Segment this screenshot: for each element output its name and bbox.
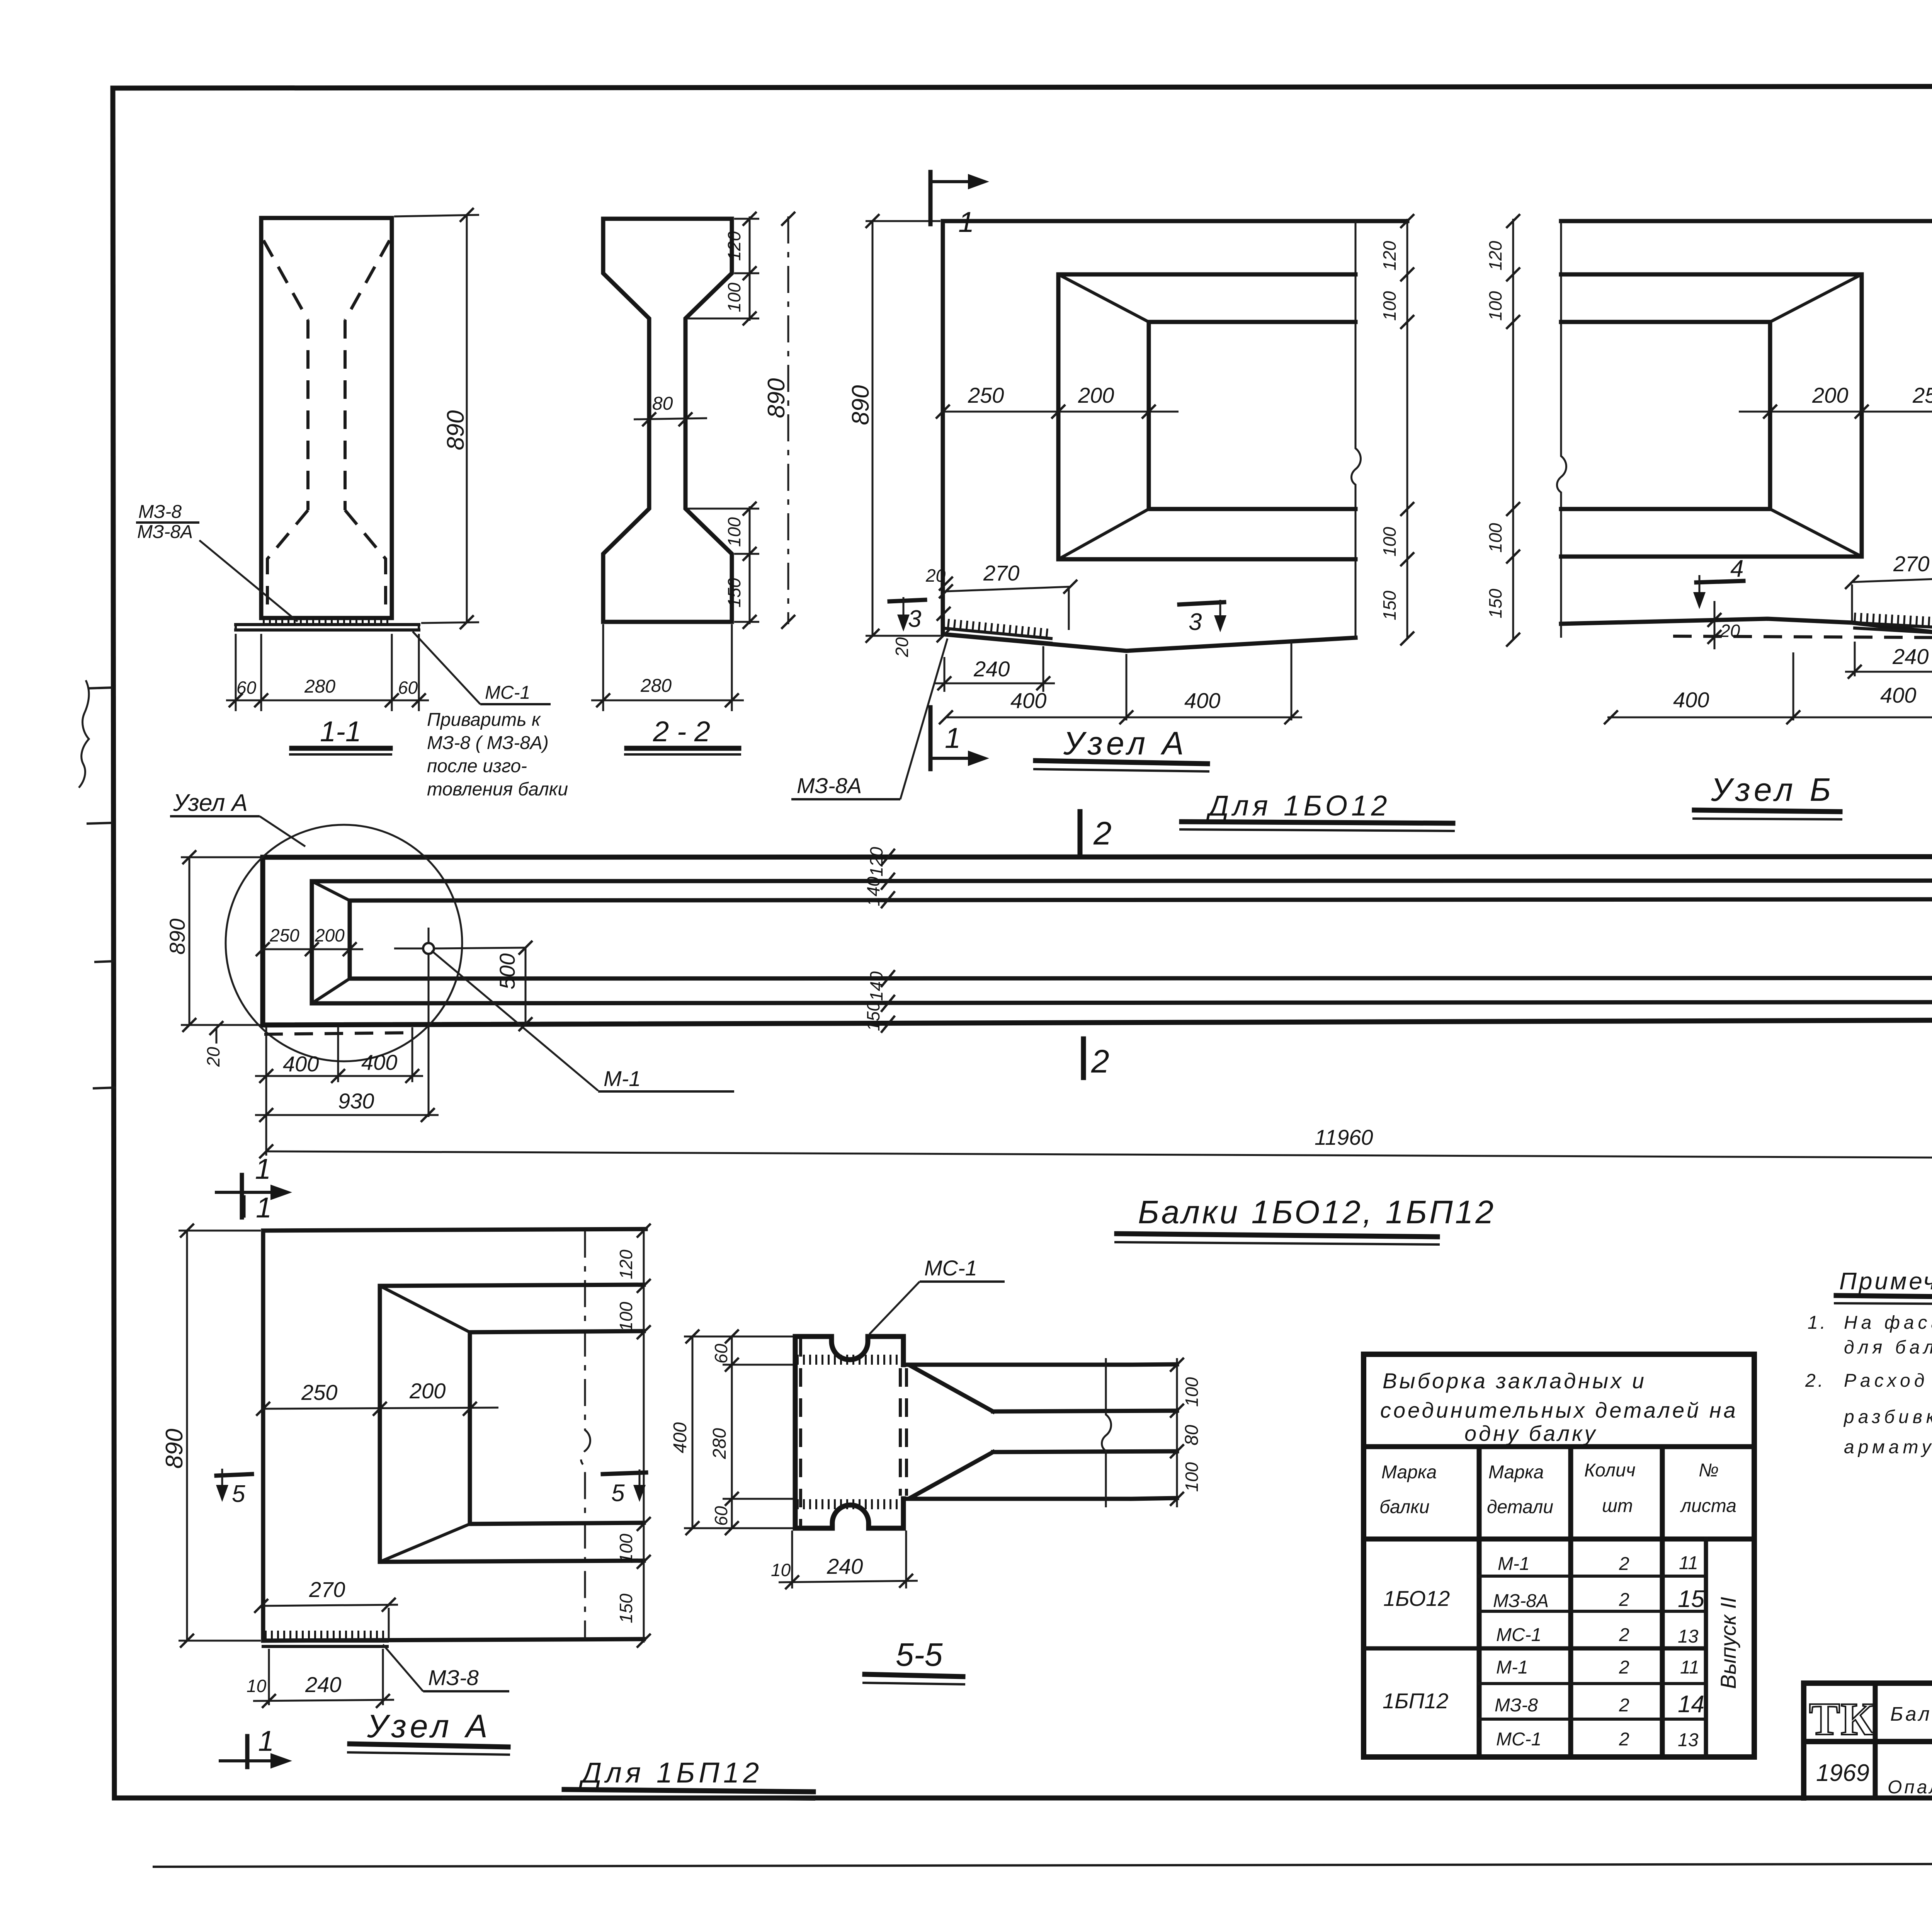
svg-text:80: 80 bbox=[652, 393, 673, 414]
title block grid bbox=[1804, 1683, 1932, 1798]
svg-text:МС-1: МС-1 bbox=[924, 1256, 977, 1280]
svg-text:100: 100 bbox=[1485, 523, 1505, 553]
uzel B dims 120 100 100 150 left bbox=[1485, 214, 1520, 647]
svg-text:соединительных деталей на: соединительных деталей на bbox=[1380, 1398, 1738, 1422]
beam outline bbox=[263, 856, 1932, 1025]
svg-text:3: 3 bbox=[908, 606, 921, 632]
svg-text:Узел А: Узел А bbox=[173, 790, 248, 816]
label Для 1БП12 bbox=[562, 1757, 815, 1800]
labels МЗ-8 МЗ-8А with leader bbox=[136, 502, 298, 621]
svg-text:Примечания.: Примечания. bbox=[1839, 1268, 1932, 1295]
uzel A beam outline bbox=[943, 221, 1407, 651]
svg-text:3: 3 bbox=[1189, 609, 1202, 635]
М-1 item left with leader bbox=[394, 928, 734, 1117]
svg-text:890: 890 bbox=[442, 410, 469, 450]
title 1-1 bbox=[289, 715, 392, 754]
bottom uzel A dims 120 100 100 150 right bbox=[616, 1224, 651, 1648]
section 2-2 I-beam outline bbox=[603, 219, 732, 622]
svg-text:МС-1: МС-1 bbox=[1496, 1729, 1541, 1750]
svg-text:240: 240 bbox=[973, 657, 1010, 681]
svg-text:5: 5 bbox=[232, 1481, 245, 1507]
svg-text:МЗ-8А: МЗ-8А bbox=[1493, 1591, 1549, 1611]
uzel A dim 890 left bbox=[847, 214, 940, 643]
svg-text:МЗ-8: МЗ-8 bbox=[138, 502, 182, 522]
svg-text:250: 250 bbox=[301, 1380, 337, 1405]
svg-text:270: 270 bbox=[1893, 552, 1929, 576]
svg-text:13: 13 bbox=[1678, 1730, 1699, 1750]
svg-text:100: 100 bbox=[724, 517, 744, 547]
svg-text:120: 120 bbox=[866, 847, 886, 877]
svg-text:270: 270 bbox=[309, 1577, 345, 1602]
svg-text:1БП12: 1БП12 bbox=[1383, 1689, 1448, 1713]
svg-text:5-5: 5-5 bbox=[896, 1636, 943, 1673]
title row 1 bbox=[1890, 1699, 1932, 1725]
5-5 dims 60 280 60 400 left bbox=[670, 1330, 793, 1535]
bottom uzel A МЗ-8 plate bbox=[263, 1636, 387, 1646]
svg-text:60: 60 bbox=[398, 678, 418, 698]
svg-text:1-1: 1-1 bbox=[320, 715, 361, 747]
dashed 20 drop line left bbox=[203, 1021, 412, 1067]
svg-text:240: 240 bbox=[1892, 644, 1929, 669]
svg-text:280: 280 bbox=[640, 676, 672, 696]
svg-text:15: 15 bbox=[1678, 1586, 1704, 1612]
svg-text:Балки с параллельными поясами: Балки с параллельными поясами пролетом 1… bbox=[1890, 1703, 1932, 1725]
title row 2 bbox=[1816, 1746, 1932, 1798]
svg-text:120: 120 bbox=[1485, 241, 1505, 271]
svg-text:10: 10 bbox=[247, 1676, 267, 1696]
svg-text:Узел А: Узел А bbox=[367, 1708, 492, 1744]
TK logo bbox=[1809, 1693, 1875, 1745]
svg-text:одну балку: одну балку bbox=[1464, 1421, 1598, 1445]
2-2 bottom dim 280 bbox=[591, 624, 744, 711]
svg-text:60: 60 bbox=[711, 1343, 731, 1364]
svg-text:400: 400 bbox=[361, 1050, 397, 1074]
svg-text:11: 11 bbox=[1679, 1553, 1698, 1573]
svg-text:М-1: М-1 bbox=[1498, 1554, 1530, 1574]
svg-text:ТК: ТК bbox=[1809, 1693, 1875, 1745]
svg-text:2.: 2. bbox=[1805, 1371, 1825, 1391]
svg-text:после изго-: после изго- bbox=[427, 756, 527, 776]
svg-text:арматурные чертежи - на лис: арматурные чертежи - на листах 10, 11 bbox=[1844, 1437, 1932, 1457]
svg-text:Узел Б: Узел Б bbox=[1711, 771, 1835, 808]
uzel B dim 240 and 25 bbox=[1845, 638, 1932, 679]
5-5 МС-1 callout bbox=[869, 1256, 1005, 1334]
5-5 dims 10 240 bottom bbox=[771, 1531, 918, 1589]
svg-text:20: 20 bbox=[203, 1047, 223, 1067]
section mark 2 top bbox=[1080, 812, 1112, 852]
plate МС-1 under section 1-1 bbox=[236, 621, 419, 632]
svg-text:№: № bbox=[1699, 1460, 1719, 1481]
svg-text:МЗ-8: МЗ-8 bbox=[1495, 1695, 1538, 1716]
title 2-2 bbox=[624, 715, 741, 754]
svg-text:шт: шт bbox=[1602, 1496, 1633, 1516]
uzel A title bbox=[1033, 725, 1209, 771]
svg-text:400: 400 bbox=[1184, 688, 1220, 713]
svg-text:60: 60 bbox=[236, 678, 257, 698]
uzel B dim 20 at kink bbox=[1708, 601, 1740, 649]
svg-text:200: 200 bbox=[1812, 383, 1848, 407]
svg-text:80: 80 bbox=[1182, 1425, 1202, 1445]
bottom uzel A МЗ-8 label with leader bbox=[383, 1645, 509, 1691]
title 5-5 bbox=[862, 1636, 965, 1684]
beam title bbox=[1114, 1194, 1496, 1245]
svg-text:1: 1 bbox=[945, 722, 961, 754]
bottom uzel A recess box bbox=[380, 1285, 644, 1562]
svg-text:150: 150 bbox=[724, 578, 744, 608]
svg-text:100: 100 bbox=[724, 283, 744, 312]
2-2 web dim 80 bbox=[634, 393, 707, 426]
label МС-1 with leader and note text bbox=[413, 632, 568, 800]
dim 500 left bbox=[495, 941, 532, 1031]
footer line bbox=[153, 1863, 1932, 1867]
svg-text:200: 200 bbox=[1078, 383, 1114, 407]
svg-text:2: 2 bbox=[1619, 1590, 1629, 1610]
note 1 bbox=[1808, 1313, 1932, 1358]
bottom uzel A dim 250 200 bbox=[256, 1379, 498, 1416]
svg-text:11: 11 bbox=[1680, 1657, 1699, 1678]
svg-text:Узел А: Узел А bbox=[1063, 725, 1188, 761]
beam dim 890 left bbox=[165, 850, 260, 1032]
svg-text:280: 280 bbox=[304, 676, 335, 697]
uzel B title bbox=[1692, 771, 1842, 819]
label Для 1БО12 bbox=[1179, 790, 1455, 831]
svg-text:120: 120 bbox=[616, 1250, 636, 1279]
svg-text:140: 140 bbox=[863, 877, 883, 906]
svg-text:Для 1БП12: Для 1БП12 bbox=[579, 1757, 763, 1789]
svg-text:2: 2 bbox=[1619, 1729, 1629, 1750]
dim 11960 bbox=[259, 1125, 1932, 1166]
callout circle uzel A bbox=[170, 790, 462, 1061]
svg-text:МС-1: МС-1 bbox=[1496, 1625, 1541, 1645]
dimension 890 right of 1-1 bbox=[394, 208, 479, 629]
svg-text:Марка: Марка bbox=[1381, 1462, 1437, 1483]
svg-text:100: 100 bbox=[616, 1534, 636, 1563]
uzel B section marks 4 bbox=[1693, 555, 1743, 609]
svg-text:20: 20 bbox=[925, 565, 946, 586]
svg-text:МС-1: МС-1 bbox=[485, 683, 530, 703]
svg-text:Марка: Марка bbox=[1488, 1462, 1544, 1483]
svg-text:МЗ-8 ( МЗ-8А): МЗ-8 ( МЗ-8А) bbox=[427, 733, 549, 753]
svg-text:2: 2 bbox=[1619, 1625, 1629, 1645]
bottom uzel A cut line with break bbox=[581, 1231, 590, 1639]
uzel A section mark 1 top bbox=[930, 172, 989, 238]
svg-text:150: 150 bbox=[1379, 591, 1400, 620]
2-2 overall 890 dim bbox=[763, 212, 795, 629]
svg-text:20: 20 bbox=[1720, 621, 1740, 641]
svg-text:100: 100 bbox=[1182, 1377, 1202, 1407]
svg-text:4: 4 bbox=[1730, 555, 1743, 582]
svg-text:890: 890 bbox=[161, 1429, 188, 1469]
uzel A dim 240 bbox=[935, 646, 1055, 692]
svg-text:2: 2 bbox=[1619, 1695, 1629, 1716]
svg-text:60: 60 bbox=[711, 1506, 731, 1526]
svg-text:20: 20 bbox=[892, 637, 912, 657]
svg-text:товления балки: товления балки bbox=[427, 779, 568, 800]
svg-text:250: 250 bbox=[968, 383, 1004, 407]
svg-text:1: 1 bbox=[256, 1192, 272, 1224]
svg-text:13: 13 bbox=[1678, 1626, 1699, 1647]
svg-text:890: 890 bbox=[165, 919, 189, 955]
dims 400 400 930 left bbox=[255, 1027, 439, 1156]
uzel B beam cut line with break bbox=[1557, 221, 1566, 638]
svg-text:120: 120 bbox=[1379, 241, 1400, 271]
svg-text:200: 200 bbox=[409, 1379, 446, 1403]
bottom uzel A section marks 5 bbox=[216, 1469, 252, 1507]
svg-text:400: 400 bbox=[670, 1422, 690, 1453]
svg-text:100: 100 bbox=[1379, 291, 1400, 321]
svg-text:Расход материалов и выборка: Расход материалов и выборка стали даны н… bbox=[1844, 1371, 1932, 1391]
svg-text:2: 2 bbox=[1093, 815, 1112, 851]
svg-text:140: 140 bbox=[866, 971, 886, 1001]
section mark 2 bottom bbox=[1083, 1039, 1109, 1079]
bottom uzel A title bbox=[347, 1708, 510, 1755]
svg-text:240: 240 bbox=[827, 1554, 863, 1578]
svg-text:1БО12: 1БО12 bbox=[1383, 1586, 1450, 1611]
5-5 dims 100 80 100 right bbox=[1170, 1358, 1202, 1507]
uzel B dims 400 400 930 bbox=[1604, 635, 1932, 724]
bottom uzel A section mark 1 bottom bbox=[220, 1725, 292, 1769]
bottom uzel A dim 270 bbox=[254, 1577, 398, 1639]
uzel A dim 20 labels bbox=[892, 565, 953, 657]
uzel B dim 270 bbox=[1845, 552, 1932, 621]
dimension 60-280-60 under 1-1 bbox=[226, 634, 429, 711]
svg-text:Для 1БО12: Для 1БО12 bbox=[1206, 790, 1391, 822]
bottom uzel A beam outline bbox=[263, 1229, 646, 1641]
svg-text:100: 100 bbox=[616, 1302, 636, 1331]
notes heading bbox=[1834, 1268, 1932, 1304]
svg-text:11960: 11960 bbox=[1315, 1125, 1373, 1149]
svg-text:14: 14 bbox=[1678, 1691, 1704, 1718]
uzel A plate МЗ-8А sloped with hatch bbox=[946, 624, 1051, 643]
uzel A МЗ-8А label with leader bbox=[791, 638, 947, 799]
left end recess trapezoid bbox=[312, 881, 350, 1003]
uzel A dims 120 100 right bbox=[1379, 214, 1414, 645]
svg-text:МЗ-8А: МЗ-8А bbox=[797, 773, 862, 798]
svg-text:М-1: М-1 bbox=[604, 1066, 641, 1091]
uzel A beam cut line with break bbox=[1352, 221, 1361, 638]
svg-text:1: 1 bbox=[258, 1725, 274, 1757]
svg-text:150: 150 bbox=[863, 1001, 883, 1031]
svg-text:Колич: Колич bbox=[1584, 1460, 1636, 1481]
table box bbox=[1364, 1354, 1754, 1757]
svg-text:100: 100 bbox=[1182, 1462, 1202, 1492]
uzel B dim 200 250 bbox=[1739, 383, 1932, 419]
uzel A dim 250 200 bbox=[936, 383, 1179, 419]
elevation dim 250 200 left end bbox=[256, 925, 363, 956]
bottom uzel A section mark 1 top bbox=[243, 1192, 272, 1224]
svg-text:100: 100 bbox=[1485, 291, 1505, 321]
svg-text:150: 150 bbox=[1485, 589, 1505, 618]
uzel B plate МЗ-8А sloped with hatch bbox=[1673, 618, 1932, 638]
section 1-1 beam rectangle bbox=[261, 218, 392, 618]
svg-text:1.: 1. bbox=[1808, 1313, 1828, 1333]
2-2 right segment dims 120 100 100 150 bbox=[688, 212, 759, 629]
section 1-1 dashed I-profile bbox=[264, 240, 389, 615]
svg-text:Балки 1БО12, 1БП12: Балки 1БО12, 1БП12 bbox=[1138, 1194, 1496, 1230]
svg-text:250: 250 bbox=[269, 925, 299, 945]
svg-text:разбивка напрягаемой арматур: разбивка напрягаемой арматуры - на листе… bbox=[1843, 1407, 1932, 1427]
svg-text:240: 240 bbox=[305, 1672, 341, 1697]
svg-text:930: 930 bbox=[338, 1089, 374, 1113]
bottom uzel A dims 10 240 bbox=[247, 1649, 394, 1708]
svg-text:МЗ-8: МЗ-8 bbox=[428, 1665, 479, 1690]
svg-text:400: 400 bbox=[1010, 688, 1046, 713]
svg-text:2: 2 bbox=[1619, 1554, 1629, 1574]
svg-text:МЗ-8А: МЗ-8А bbox=[137, 522, 193, 542]
svg-text:120: 120 bbox=[724, 231, 744, 261]
svg-text:200: 200 bbox=[315, 925, 345, 945]
svg-text:100: 100 bbox=[1379, 527, 1400, 557]
svg-text:250: 250 bbox=[1912, 383, 1932, 407]
svg-text:2: 2 bbox=[1091, 1043, 1109, 1079]
svg-text:листа: листа bbox=[1680, 1496, 1736, 1516]
svg-text:890: 890 bbox=[763, 378, 790, 418]
svg-text:На фасаде пунктиром показаны: На фасаде пунктиром показаны очертания у… bbox=[1844, 1313, 1932, 1333]
svg-text:2: 2 bbox=[1619, 1657, 1629, 1678]
svg-text:1: 1 bbox=[958, 206, 974, 238]
5-5 МС-1 plate with notches bbox=[795, 1336, 906, 1528]
uzel A recess box bbox=[1058, 274, 1355, 559]
svg-text:балки: балки bbox=[1379, 1497, 1430, 1517]
svg-text:5: 5 bbox=[611, 1480, 625, 1507]
svg-text:500: 500 bbox=[495, 953, 519, 989]
note 2 bbox=[1805, 1371, 1932, 1457]
svg-text:Выборка закладных и: Выборка закладных и bbox=[1383, 1369, 1646, 1393]
svg-text:150: 150 bbox=[616, 1594, 636, 1623]
section mark 1 (below left, for bottom drawing) bbox=[216, 1153, 292, 1217]
uzel A dim 270 bbox=[939, 561, 1077, 630]
svg-text:400: 400 bbox=[1673, 688, 1709, 712]
5-5 beam flange taper and web strip bbox=[906, 1358, 1177, 1507]
svg-text:400: 400 bbox=[1880, 683, 1916, 707]
svg-text:1: 1 bbox=[255, 1153, 271, 1185]
svg-text:2 - 2: 2 - 2 bbox=[653, 715, 710, 747]
svg-text:детали: детали bbox=[1487, 1497, 1553, 1517]
svg-text:280: 280 bbox=[709, 1428, 730, 1459]
svg-text:М-1: М-1 bbox=[1496, 1657, 1528, 1678]
svg-text:1969: 1969 bbox=[1816, 1760, 1869, 1786]
svg-text:для балок 1БО12.: для балок 1БО12. bbox=[1844, 1337, 1932, 1358]
uzel A dims 400 400 bbox=[939, 640, 1302, 724]
svg-text:270: 270 bbox=[983, 561, 1019, 585]
table title bbox=[1380, 1369, 1738, 1445]
recess edge lines along beam bbox=[312, 880, 1932, 1003]
svg-text:400: 400 bbox=[283, 1052, 319, 1076]
svg-text:Выпуск II: Выпуск II bbox=[1716, 1597, 1740, 1689]
svg-text:10: 10 bbox=[771, 1560, 791, 1580]
table headers bbox=[1379, 1460, 1736, 1517]
svg-text:Опалубочный чертеж. Выборка: Опалубочный чертеж. Выборка закладных де… bbox=[1888, 1777, 1932, 1798]
uzel B beam outline bbox=[1561, 221, 1932, 637]
svg-text:Приварить к: Приварить к bbox=[427, 710, 541, 730]
uzel B recess box bbox=[1561, 274, 1862, 557]
left margin pencil marks bbox=[79, 680, 116, 1088]
uzel A section marks 3 bbox=[889, 597, 925, 632]
uzel A section mark 1 bottom bbox=[930, 707, 989, 769]
svg-text:890: 890 bbox=[847, 385, 874, 425]
bottom uzel A dim 890 left bbox=[161, 1224, 261, 1648]
table data bbox=[1383, 1553, 1740, 1750]
mid ticks and dims 120 140 / 140 150 bbox=[863, 847, 895, 1033]
